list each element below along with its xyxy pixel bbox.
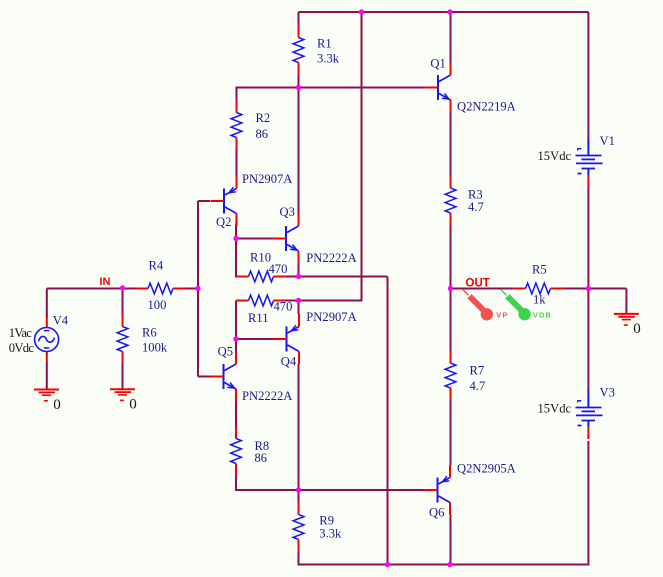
V source V1 (battery) <box>576 139 603 188</box>
wire Q5 emitter to R8 <box>235 402 237 427</box>
svg-text:100: 100 <box>148 298 167 312</box>
wire Q2 base stub <box>198 200 211 202</box>
resistor R2 <box>231 100 242 150</box>
label R6 <box>142 326 157 340</box>
node R8-Q6B-R9 <box>296 487 301 492</box>
node R1 bottom <box>296 85 301 90</box>
probe label VP <box>496 311 508 320</box>
label Q2 <box>216 215 231 229</box>
node R10 right <box>296 274 301 279</box>
net label OUT <box>466 278 490 290</box>
V source V3 (battery) <box>576 391 603 440</box>
label Q4 <box>281 354 297 368</box>
svg-text:R1: R1 <box>317 37 332 51</box>
value R7 = 4.7 <box>470 379 486 393</box>
probe VDB (dB marker) <box>501 289 531 320</box>
ground label 0 (gnd R6) <box>129 397 137 413</box>
svg-text:R11: R11 <box>248 311 269 325</box>
value R10 = 470 <box>269 262 288 276</box>
model Q1 = Q2N2219A <box>457 99 516 113</box>
wire R8 bottom drop <box>235 476 237 491</box>
svg-text:IN: IN <box>100 276 111 288</box>
resistor R6 <box>117 314 128 364</box>
wire gnd node to V3 <box>587 289 589 392</box>
resistor R9 <box>293 502 304 552</box>
svg-text:0Vdc: 0Vdc <box>9 341 35 355</box>
svg-text:PN2907A: PN2907A <box>306 310 356 324</box>
resistor R1 <box>293 25 304 75</box>
label Q5 <box>218 344 233 358</box>
svg-text:V4: V4 <box>53 314 69 328</box>
transistor Q5 (PN2222A) <box>211 352 237 402</box>
wire R6 to gnd <box>122 364 124 389</box>
resistor R8 <box>231 426 242 476</box>
value R2 = 86 <box>256 127 269 141</box>
wire R10 right to rail B <box>286 276 388 278</box>
svg-text:R2: R2 <box>256 111 271 125</box>
model Q4 = PN2907A <box>306 310 356 324</box>
svg-text:R5: R5 <box>532 263 547 277</box>
wire OUT to R5 <box>451 288 514 290</box>
value V3 = 15Vdc <box>538 401 572 415</box>
node Q2C-Q3B <box>233 236 238 241</box>
wire R8 corner to node <box>236 489 300 491</box>
value R9 = 3.3k <box>319 527 342 541</box>
wire base rail <box>197 201 199 377</box>
wire OUT to R7 <box>450 289 452 351</box>
svg-text:PN2907A: PN2907A <box>242 172 292 186</box>
svg-text:3.3k: 3.3k <box>319 527 342 541</box>
resistor R3 <box>445 176 456 226</box>
wire R4 to base rail <box>186 288 199 290</box>
svg-text:1k: 1k <box>533 292 546 306</box>
value V1 = 15Vdc <box>538 149 572 163</box>
probe label VDB <box>533 311 552 320</box>
svg-text:0: 0 <box>633 321 641 337</box>
node right rail gnd <box>586 286 591 291</box>
wire IN to R4 <box>123 288 136 290</box>
svg-text:VP: VP <box>496 311 508 320</box>
resistor R7 <box>445 351 456 401</box>
svg-text:3.3k: 3.3k <box>317 52 340 66</box>
svg-text:R6: R6 <box>142 326 157 340</box>
value R4 = 100 <box>148 298 167 312</box>
svg-text:86: 86 <box>256 127 269 141</box>
wire column above Q3 <box>298 88 300 214</box>
wire IN to R6 <box>122 289 124 315</box>
svg-text:Q2N2219A: Q2N2219A <box>457 99 516 113</box>
wire node to Q1 base <box>299 87 426 89</box>
wire Q2 collector drop <box>235 224 237 240</box>
label V1 <box>600 134 615 148</box>
value R8 = 86 <box>255 451 268 465</box>
label R8 <box>255 439 270 453</box>
node R11-Q4B-Q5C <box>233 336 238 341</box>
value V4 1Vac <box>9 326 32 340</box>
label R3 <box>468 187 483 201</box>
wire node to R9 <box>298 490 300 502</box>
wire Q4 emitter riser <box>298 301 300 315</box>
model Q2 = PN2907A <box>242 172 292 186</box>
svg-text:PN2222A: PN2222A <box>242 389 292 403</box>
svg-text:86: 86 <box>255 451 268 465</box>
svg-text:4.7: 4.7 <box>468 200 484 214</box>
wire Q4 collector drop <box>298 364 300 490</box>
resistor R5 <box>513 283 563 294</box>
model Q3 = PN2222A <box>306 251 356 265</box>
svg-text:Q3: Q3 <box>280 205 295 219</box>
wire gnd branch h <box>588 288 626 290</box>
wire R2 top stub <box>236 87 238 101</box>
net label IN <box>100 276 111 288</box>
label R10 <box>250 251 271 265</box>
wire node to Q6 base <box>299 489 425 491</box>
resistor R10 <box>236 271 286 282</box>
wire node to Q4 base <box>236 338 274 340</box>
wire Q2C to Q3 base <box>236 238 274 240</box>
ground gnd V4 <box>34 390 59 401</box>
ground gnd R6 <box>110 389 135 400</box>
svg-text:470: 470 <box>269 262 288 276</box>
svg-text:R4: R4 <box>149 258 164 272</box>
label V3 <box>600 386 615 400</box>
wire Q1 emitter to R3 <box>450 113 452 176</box>
svg-text:Q1: Q1 <box>430 56 445 70</box>
wire right rail to V1 <box>587 12 589 139</box>
node top-railA <box>359 9 364 14</box>
probe VP (voltage marker) <box>462 289 493 320</box>
svg-text:V3: V3 <box>600 386 615 400</box>
transistor Q6 (Q2N2905A) <box>425 465 451 515</box>
wire R5 to right rail <box>563 288 588 290</box>
V source V4 (AC) <box>35 316 59 362</box>
wire R1 bottom to node <box>298 75 300 88</box>
transistor Q1 (Q2N2219A) <box>425 63 451 113</box>
svg-text:15Vdc: 15Vdc <box>538 401 572 415</box>
node bottom railB <box>385 562 390 567</box>
value R3 = 4.7 <box>468 200 484 214</box>
svg-text:VDB: VDB <box>533 311 552 320</box>
value R11 = 470 <box>274 300 293 314</box>
wire R9 to bottom rail <box>298 552 300 566</box>
value R5 = 1k <box>533 292 546 306</box>
transistor Q3 (PN2222A) <box>273 214 299 264</box>
label Q6 <box>429 506 444 520</box>
label Q1 <box>430 56 445 70</box>
label V4 <box>53 314 69 328</box>
resistor R4 <box>136 283 186 294</box>
wire V4 to gnd <box>46 362 48 390</box>
ground label 0 (gnd right) <box>633 321 641 337</box>
svg-text:Q5: Q5 <box>218 344 233 358</box>
svg-text:4.7: 4.7 <box>470 379 486 393</box>
node base rail node <box>195 286 200 291</box>
label R1 <box>317 37 332 51</box>
svg-text:OUT: OUT <box>466 278 490 290</box>
value R1 = 3.3k <box>317 52 340 66</box>
svg-text:470: 470 <box>274 300 293 314</box>
transistor Q2 (PN2907A) <box>211 176 237 226</box>
wire Q3 emitter drop <box>298 264 300 277</box>
svg-text:R9: R9 <box>319 513 334 527</box>
svg-text:R7: R7 <box>470 364 485 378</box>
node IN node <box>120 285 125 290</box>
svg-text:Q6: Q6 <box>429 506 444 520</box>
wire V1 to gnd node <box>587 187 589 289</box>
label Q3 <box>280 205 295 219</box>
wire node to Q5 collector <box>235 339 237 352</box>
label R5 <box>532 263 547 277</box>
ground label 0 (gnd V4) <box>53 397 61 413</box>
wire R11 left drop <box>235 301 237 341</box>
ground gnd right <box>614 314 639 325</box>
svg-text:Q2N2905A: Q2N2905A <box>457 461 516 475</box>
node bottom Q6C <box>447 562 452 567</box>
node OUT node <box>448 286 453 291</box>
wire gnd branch v <box>625 289 627 314</box>
wire Q5 base stub <box>198 376 211 378</box>
svg-text:0: 0 <box>53 397 61 413</box>
wire rail A <box>361 12 363 302</box>
wire top rail <box>299 11 589 13</box>
wire rail B down <box>387 277 389 566</box>
svg-text:100k: 100k <box>142 341 168 355</box>
svg-text:V1: V1 <box>600 134 615 148</box>
svg-text:1Vac: 1Vac <box>9 326 32 340</box>
wire R2 to Q2 emitter <box>236 150 238 182</box>
node top-Q1C <box>447 9 452 14</box>
wire V4 riser <box>46 289 48 318</box>
wire V3 to bottom rail <box>587 441 589 566</box>
model Q6 = Q2N2905A <box>457 461 516 475</box>
transistor Q4 (PN2907A) <box>274 314 300 364</box>
wire R7 to Q6 emitter <box>450 401 452 466</box>
svg-text:15Vdc: 15Vdc <box>538 149 572 163</box>
wire V4 to IN <box>47 288 123 290</box>
wire R3 to OUT <box>450 226 452 290</box>
label R2 <box>256 111 271 125</box>
svg-text:0: 0 <box>129 397 137 413</box>
wire Q1 collector riser <box>450 12 452 63</box>
value R6 = 100k <box>142 341 168 355</box>
model Q5 = PN2222A <box>242 389 292 403</box>
svg-text:Q2: Q2 <box>216 215 231 229</box>
wire R11 right to rail A <box>286 300 362 302</box>
svg-text:Q4: Q4 <box>281 354 297 368</box>
label R9 <box>319 513 334 527</box>
wire bottom rail <box>299 564 589 566</box>
label R11 <box>248 311 269 325</box>
wire node to R2 corner <box>237 87 300 89</box>
wire R1 top stub <box>298 12 300 25</box>
label R4 <box>149 258 164 272</box>
node R11 right <box>296 298 301 303</box>
wire Q2C down to R10 <box>235 239 237 278</box>
label R7 <box>470 364 485 378</box>
svg-text:PN2222A: PN2222A <box>306 251 356 265</box>
value V4 0Vdc <box>9 341 35 355</box>
resistor R11 <box>236 295 286 306</box>
wire Q6 collector drop <box>450 515 452 565</box>
